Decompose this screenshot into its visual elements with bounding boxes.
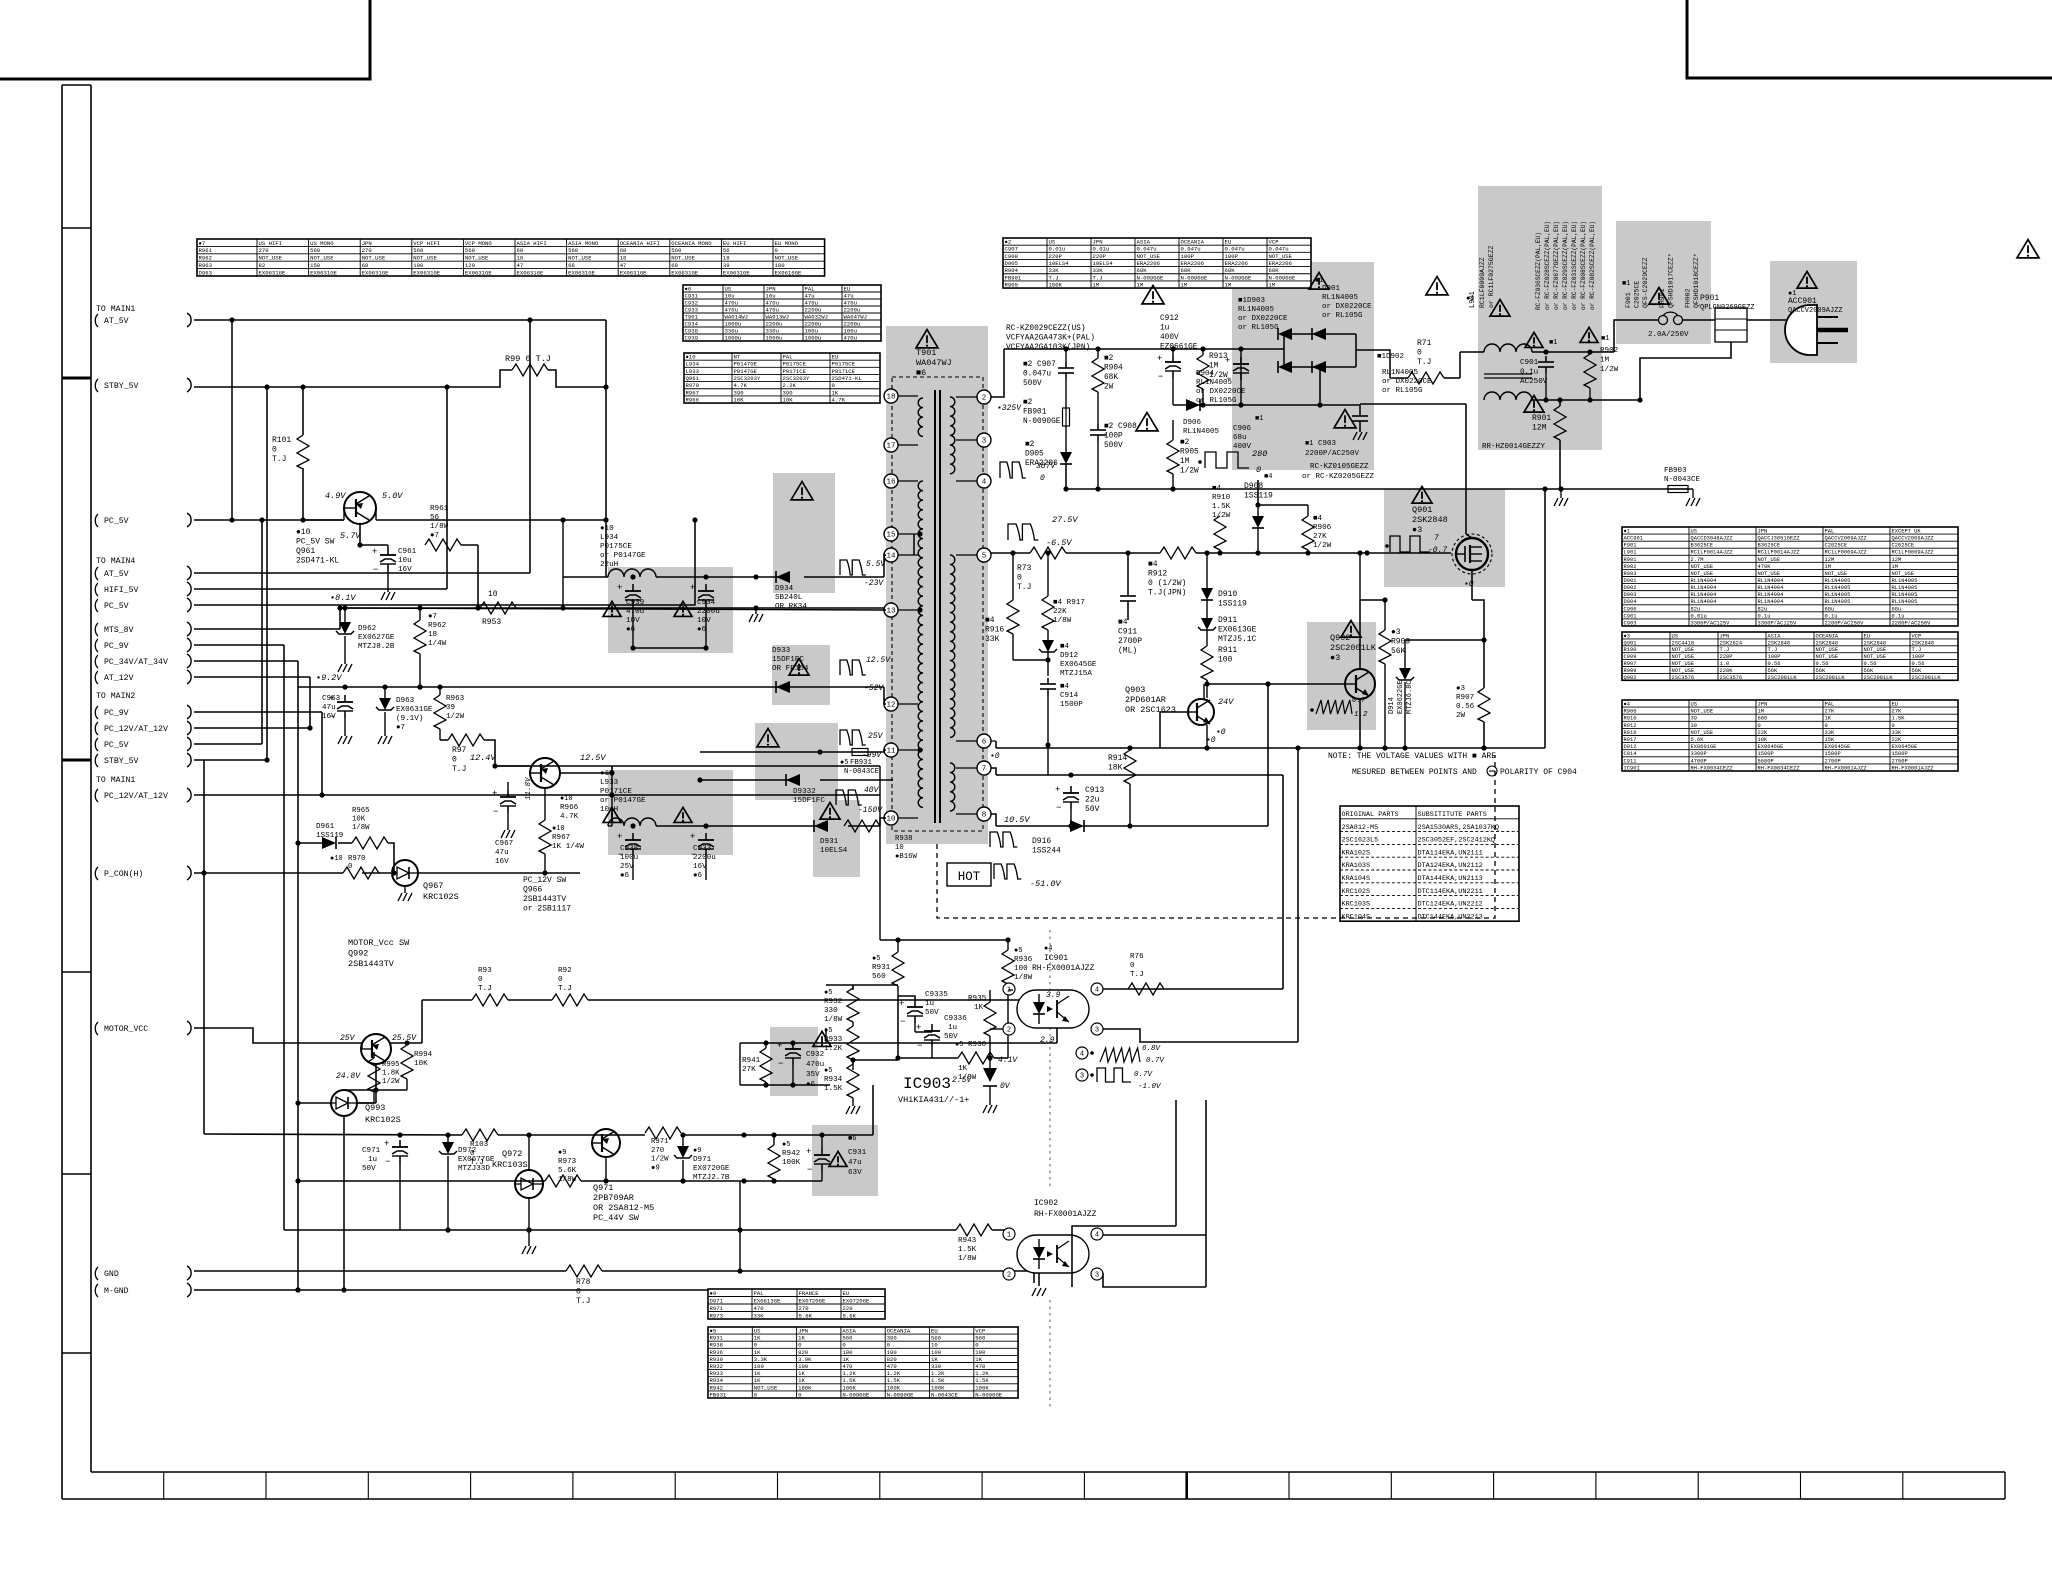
diode D906 (1183, 399, 1220, 436)
svg-text:1M: 1M (1758, 709, 1764, 715)
svg-text:C961: C961 (398, 548, 417, 556)
diode D904 (1278, 361, 1292, 373)
svg-text:■4: ■4 (1212, 485, 1222, 493)
svg-text:C931: C931 (848, 1149, 867, 1157)
svg-text:3300P/AC125V: 3300P/AC125V (1758, 620, 1798, 626)
svg-text:25.5V: 25.5V (392, 1034, 417, 1043)
wire M-GND rail (194, 1287, 740, 1292)
svg-text:RC1LF0014AJZZ: RC1LF0014AJZZ (1691, 550, 1734, 556)
svg-text:2200P/AC250V: 2200P/AC250V (1305, 450, 1360, 458)
svg-text:−: − (900, 1017, 905, 1027)
svg-text:R932: R932 (824, 998, 843, 1006)
svg-text:NOT_USE: NOT_USE (1816, 654, 1839, 660)
svg-text:2.5V: 2.5V (952, 1076, 972, 1085)
svg-text:27.5V: 27.5V (1052, 515, 1078, 525)
svg-text:3: 3 (982, 438, 987, 446)
svg-text:1u: 1u (925, 1000, 934, 1008)
svg-text:0: 0 (1256, 465, 1261, 475)
svg-text:VHiKIA431//-1+: VHiKIA431//-1+ (898, 1095, 969, 1105)
capacitor C903 (1302, 405, 1375, 481)
svg-text:EX0631GE: EX0631GE (517, 269, 544, 276)
label IC903 (898, 1075, 969, 1105)
svg-text:560: 560 (413, 247, 424, 254)
svg-text:RL1N4004: RL1N4004 (1691, 578, 1717, 584)
svg-text:4.9V: 4.9V (325, 491, 346, 501)
wire IC901 pins (990, 748, 1298, 1042)
svg-text:●4: ●4 (1044, 945, 1052, 953)
svg-text:US: US (1691, 529, 1697, 535)
svg-text:JPN: JPN (1758, 702, 1768, 708)
svg-text:470: 470 (842, 1363, 853, 1370)
svg-text:FB901: FB901 (1023, 409, 1047, 417)
capacitor C911 (1118, 553, 1142, 656)
svg-text:18: 18 (620, 255, 627, 262)
ground R934 (846, 1106, 860, 1114)
svg-text:+: + (690, 583, 695, 593)
svg-text:PC_12V/AT_12V: PC_12V/AT_12V (104, 724, 168, 734)
wire L934 line (563, 555, 886, 580)
svg-text:R966: R966 (686, 396, 699, 403)
resistor R932 (824, 985, 859, 1024)
svg-text:●5: ●5 (710, 1328, 717, 1335)
svg-text:NOT_USE: NOT_USE (1758, 557, 1781, 563)
transistor Q902 (1345, 669, 1375, 699)
svg-text:RH-FX0034CEZZ: RH-FX0034CEZZ (1691, 765, 1734, 771)
svg-text:KRC102S: KRC102S (365, 1115, 401, 1125)
transformer T901 core (892, 377, 983, 831)
svg-text:33K: 33K (985, 635, 1000, 644)
warning triangle F901 (1649, 288, 1669, 305)
svg-text:R916: R916 (1624, 730, 1637, 736)
svg-text:STBY_5V: STBY_5V (104, 382, 138, 391)
svg-text:1K: 1K (931, 1356, 938, 1363)
node label TO MAIN4 (96, 557, 135, 566)
svg-text:1u: 1u (368, 1156, 377, 1164)
waveform Q902 (1310, 697, 1368, 719)
connector MTS_8V (95, 622, 191, 636)
svg-text:MTS_8V: MTS_8V (104, 626, 134, 635)
ground D962 (338, 664, 352, 672)
connector P_CON(H) (95, 866, 191, 880)
svg-text:2SC3576: 2SC3576 (1720, 675, 1743, 681)
capacitor C971 (362, 1139, 408, 1230)
svg-text:(9.1V): (9.1V) (396, 715, 423, 723)
svg-text:C2025CE: C2025CE (1892, 543, 1915, 549)
svg-text:EX0613GE: EX0613GE (1218, 626, 1257, 635)
svg-text:KRC103S: KRC103S (1342, 901, 1371, 909)
svg-text:▪9.2V: ▪9.2V (316, 673, 342, 683)
svg-text:56K: 56K (1912, 668, 1922, 674)
svg-text:N-0090GE: N-0090GE (887, 1391, 914, 1398)
svg-text:JPN: JPN (1093, 239, 1103, 246)
svg-text:3.9K: 3.9K (798, 1356, 812, 1363)
svg-text:47: 47 (620, 262, 627, 269)
resistor R909 (1379, 597, 1410, 748)
resistor R943 (956, 1224, 992, 1263)
svg-text:JPN: JPN (1758, 529, 1768, 535)
svg-text:0 (1/2W): 0 (1/2W) (1148, 579, 1186, 588)
svg-text:2SC1623L5: 2SC1623L5 (1342, 837, 1379, 845)
svg-text:R953: R953 (482, 618, 501, 627)
svg-text:■4: ■4 (1313, 515, 1323, 523)
svg-text:0.047u: 0.047u (1225, 246, 1245, 253)
svg-text:1K: 1K (754, 1370, 761, 1377)
svg-text:VCP: VCP (1269, 239, 1280, 246)
svg-text:EX0631GE: EX0631GE (723, 269, 750, 276)
highlight box: rectifier D901-D904 area (1232, 262, 1374, 470)
svg-text:680: 680 (1758, 716, 1768, 722)
svg-text:2.7M: 2.7M (1691, 557, 1704, 563)
wire AC return (1532, 320, 1731, 403)
svg-text:●4: ●4 (1624, 702, 1630, 708)
svg-text:18: 18 (723, 255, 730, 262)
svg-text:L934: L934 (600, 534, 619, 542)
svg-text:4: 4 (1095, 986, 1099, 994)
resistor R910 (1212, 485, 1231, 553)
svg-text:4700P: 4700P (1691, 758, 1707, 764)
svg-text:1.5K: 1.5K (824, 1085, 843, 1093)
label T901 (916, 348, 952, 378)
svg-text:Q992: Q992 (348, 949, 368, 959)
svg-text:220P: 220P (1049, 253, 1063, 260)
warning triangle ACC901 (1797, 272, 1817, 289)
svg-text:D963: D963 (396, 697, 415, 705)
svg-text:Q901: Q901 (1412, 505, 1432, 515)
svg-text:RL1N4005: RL1N4005 (1825, 592, 1851, 598)
svg-text:EX0631GE: EX0631GE (396, 706, 433, 714)
svg-text:US: US (1691, 702, 1697, 708)
svg-text:10u: 10u (398, 557, 412, 565)
resistor R902 (1584, 335, 1619, 400)
capacitor C907 (1023, 361, 1074, 388)
capacitor C938 (617, 823, 641, 880)
svg-text:68u: 68u (1825, 606, 1835, 612)
svg-text:33K: 33K (1049, 267, 1060, 274)
svg-text:EX0631GE: EX0631GE (620, 269, 647, 276)
wire P_CON(H) (194, 760, 343, 1134)
svg-text:R942: R942 (710, 1384, 723, 1391)
wire IC903 sense (826, 1028, 853, 1070)
svg-text:R935: R935 (968, 995, 987, 1003)
svg-text:R904: R904 (1005, 267, 1019, 274)
svg-text:2SC3203Y: 2SC3203Y (783, 375, 810, 382)
svg-text:▪0: ▪0 (1216, 728, 1226, 737)
svg-text:MOTOR_Vcc SW: MOTOR_Vcc SW (348, 938, 410, 948)
svg-text:C906: C906 (1624, 606, 1637, 612)
svg-text:−: − (1158, 372, 1163, 382)
svg-text:D905: D905 (1025, 451, 1044, 459)
svg-text:2: 2 (1007, 1026, 1011, 1034)
svg-text:MTZJ6.8C: MTZJ6.8C (1406, 680, 1414, 714)
svg-text:VCP MONO: VCP MONO (465, 240, 492, 247)
svg-text:3: 3 (1080, 1072, 1084, 1080)
svg-text:WA014WJ: WA014WJ (725, 313, 749, 320)
svg-text:0.56: 0.56 (1456, 703, 1475, 711)
svg-text:EX0631GE: EX0631GE (671, 269, 698, 276)
svg-text:NOT_USE: NOT_USE (1864, 647, 1887, 653)
capacitor C961 (360, 545, 417, 592)
svg-text:1: 1 (1007, 1231, 1011, 1239)
svg-text:R933: R933 (824, 1036, 843, 1044)
svg-text:2700P: 2700P (1892, 758, 1908, 764)
highlight box: fuse F901 variants (1616, 221, 1711, 344)
svg-text:2: 2 (982, 395, 987, 403)
svg-text:1K: 1K (754, 1335, 761, 1342)
svg-text:−: − (373, 565, 378, 575)
svg-text:R92: R92 (558, 967, 572, 975)
svg-text:C911: C911 (1624, 758, 1637, 764)
svg-text:470K: 470K (1758, 564, 1772, 570)
svg-text:●6: ●6 (626, 626, 636, 634)
svg-text:■2: ■2 (1104, 355, 1114, 363)
svg-text:RC1LF0009AJZZ: RC1LF0009AJZZ (1479, 257, 1486, 308)
svg-text:R942: R942 (782, 1150, 801, 1158)
svg-text:▪8.1V: ▪8.1V (330, 593, 356, 603)
svg-text:C912: C912 (1160, 315, 1179, 323)
svg-text:C938: C938 (620, 845, 639, 853)
svg-text:R971: R971 (710, 1305, 724, 1312)
resistor R967 (539, 788, 584, 876)
svg-text:56K: 56K (1768, 668, 1778, 674)
svg-text:47u: 47u (322, 704, 336, 712)
svg-text:D933: D933 (772, 647, 791, 655)
svg-text:39: 39 (1691, 716, 1697, 722)
svg-text:27K: 27K (742, 1066, 756, 1074)
svg-text:T.J: T.J (1049, 274, 1059, 281)
resistor R901 (1532, 397, 1566, 489)
svg-text:EX0645GE: EX0645GE (1892, 744, 1918, 750)
wire PC_5V rail (194, 517, 698, 522)
svg-text:■1: ■1 (1549, 339, 1557, 347)
transistor Q967 (392, 860, 418, 886)
label IC901 (1032, 945, 1095, 1045)
resistor R965 (352, 807, 397, 876)
svg-text:P0175CE: P0175CE (832, 361, 856, 368)
svg-text:RL1N4004: RL1N4004 (1691, 585, 1717, 591)
svg-text:C903: C903 (1624, 620, 1637, 626)
table: substitute parts (1340, 806, 1519, 921)
svg-text:2SA812-M5: 2SA812-M5 (1342, 824, 1379, 832)
svg-text:0: 0 (576, 1288, 581, 1297)
svg-text:1000u: 1000u (725, 334, 742, 341)
svg-text:NOT_USE: NOT_USE (1672, 647, 1695, 653)
svg-text:1/2W: 1/2W (1313, 542, 1332, 550)
svg-text:■6: ■6 (848, 1135, 856, 1143)
svg-text:16V: 16V (495, 858, 509, 866)
svg-text:−: − (1056, 803, 1061, 813)
resistor R966 (560, 795, 579, 821)
wire PC5 to R953 (562, 520, 564, 608)
svg-text:-99V: -99V (862, 751, 882, 760)
svg-text:IC901: IC901 (1624, 765, 1640, 771)
svg-text:D902: D902 (1624, 585, 1637, 591)
svg-text:D931: D931 (820, 838, 839, 846)
waveform 5.5V (840, 560, 886, 588)
svg-text:P0171CE: P0171CE (832, 368, 856, 375)
svg-text:VCP: VCP (1912, 633, 1922, 639)
svg-text:KRC104S: KRC104S (1342, 913, 1371, 921)
svg-text:0: 0 (452, 756, 457, 765)
transformer T901 secondary pins (956, 390, 991, 821)
svg-text:●5: ●5 (955, 1041, 963, 1049)
zener D963 (376, 687, 433, 736)
svg-text:15: 15 (886, 532, 896, 540)
svg-text:R909: R909 (1391, 638, 1410, 647)
svg-text:+: + (617, 583, 622, 593)
svg-text:2SK2848: 2SK2848 (1864, 640, 1887, 646)
svg-text:D916: D916 (1032, 837, 1051, 846)
svg-text:15DF1FC: 15DF1FC (793, 797, 825, 805)
table: variant list #1 (ACC901..C903) (1622, 527, 1958, 626)
svg-text:0: 0 (272, 446, 277, 455)
svg-text:AC250V: AC250V (1520, 378, 1548, 386)
svg-text:●5: ●5 (782, 1141, 790, 1149)
svg-text:100K: 100K (931, 1384, 945, 1391)
svg-text:ASIA: ASIA (842, 1328, 856, 1335)
svg-text:■2 C908: ■2 C908 (1104, 423, 1137, 431)
svg-text:25V: 25V (868, 732, 884, 741)
svg-text:0.047u: 0.047u (1137, 246, 1157, 253)
svg-text:D962: D962 (358, 625, 377, 633)
svg-text:10u: 10u (725, 292, 735, 299)
svg-text:IC903: IC903 (903, 1075, 951, 1093)
svg-text:82: 82 (259, 262, 266, 269)
ground C961 (381, 592, 395, 600)
waveform 27.5V (1008, 515, 1078, 548)
svg-text:NOT_USE: NOT_USE (310, 255, 334, 262)
svg-text:33K: 33K (1825, 730, 1835, 736)
svg-text:WA047WJ: WA047WJ (844, 313, 868, 320)
svg-text:EX0631GE: EX0631GE (259, 269, 286, 276)
wire Q901 source to R907 (1405, 637, 1487, 642)
svg-text:EZ0661GE: EZ0661GE (1160, 344, 1198, 352)
svg-text:VCFYAA2GA473K+(PAL): VCFYAA2GA473K+(PAL) (1006, 335, 1095, 343)
svg-text:N-0043CE: N-0043CE (844, 768, 879, 776)
svg-text:NOT_USE: NOT_USE (465, 255, 489, 262)
svg-text:1K: 1K (974, 1004, 984, 1012)
svg-text:EXCEPT UK: EXCEPT UK (1892, 529, 1922, 535)
diode D931 (814, 820, 848, 855)
wire bottom bus (284, 1181, 1013, 1233)
svg-text:RL1N4005: RL1N4005 (1825, 585, 1851, 591)
resistor R916 (985, 550, 1019, 660)
transistor Q961 (325, 491, 403, 541)
svg-text:NOTE: THE VOLTAGE VALUES WITH: NOTE: THE VOLTAGE VALUES WITH ■ ARE (1328, 752, 1496, 761)
svg-text:2SC2001LK: 2SC2001LK (1816, 675, 1846, 681)
wire Q966 12V row (495, 765, 880, 767)
svg-text:ASIA: ASIA (1137, 239, 1151, 246)
svg-text:100: 100 (1014, 965, 1028, 973)
highlight box: Q902 (1307, 622, 1376, 730)
svg-text:3: 3 (1095, 1026, 1099, 1034)
wire pin6 rail (990, 489, 1545, 761)
svg-text:RL1N4005: RL1N4005 (1892, 578, 1918, 584)
svg-text:1.5K: 1.5K (931, 1377, 945, 1384)
svg-text:5: 5 (982, 553, 987, 561)
svg-text:▪0: ▪0 (990, 752, 1000, 761)
resistor R973 (545, 1149, 581, 1187)
svg-text:DTC114EKA,UN2211: DTC114EKA,UN2211 (1418, 888, 1483, 896)
svg-text:560: 560 (310, 247, 321, 254)
warning triangle D933 (789, 659, 809, 676)
svg-text:82u: 82u (1758, 606, 1768, 612)
svg-text:NOT_USE: NOT_USE (1672, 654, 1695, 660)
svg-text:EU: EU (844, 285, 851, 292)
resistor R994 (373, 1043, 432, 1093)
svg-text:ERA2206: ERA2206 (1137, 260, 1161, 267)
svg-text:R970: R970 (686, 382, 700, 389)
svg-text:NOT_USE: NOT_USE (1825, 571, 1848, 577)
warning triangle T901 (916, 330, 938, 348)
hot/cold dashed boundary (937, 755, 1495, 918)
ground C903 (1353, 432, 1367, 440)
frame: left revision strip (62, 85, 91, 1499)
warning triangle D931 (820, 803, 840, 820)
node label TO MAIN2 (96, 692, 135, 701)
svg-text:12.5V: 12.5V (866, 656, 891, 665)
svg-text:470u: 470u (766, 306, 779, 313)
svg-text:US MONO: US MONO (310, 240, 334, 247)
svg-text:0: 0 (558, 976, 563, 984)
svg-text:68K: 68K (1269, 267, 1280, 274)
label RR-HZ0014GEZZY (1482, 443, 1546, 451)
label HOT (947, 863, 991, 886)
svg-text:R916: R916 (985, 626, 1004, 635)
highlight box: Q901 (1384, 489, 1505, 587)
svg-text:22K: 22K (1892, 737, 1902, 743)
svg-text:●5: ●5 (1014, 947, 1022, 955)
svg-text:D910: D910 (1218, 590, 1237, 599)
svg-text:12M: 12M (1892, 557, 1902, 563)
svg-text:NOT_USE: NOT_USE (1816, 647, 1839, 653)
svg-text:5.7V: 5.7V (340, 531, 361, 541)
svg-text:C939: C939 (626, 599, 645, 607)
wire D9332 row (697, 777, 893, 782)
svg-text:D963: D963 (199, 269, 212, 276)
svg-text:■2: ■2 (1180, 439, 1190, 447)
svg-text:NOT_USE: NOT_USE (1672, 661, 1695, 667)
svg-text:0: 0 (478, 976, 483, 984)
svg-text:10: 10 (895, 844, 904, 852)
svg-text:P0171CE: P0171CE (600, 788, 632, 796)
svg-text:3300P: 3300P (1691, 751, 1707, 757)
svg-text:100P: 100P (1104, 433, 1123, 441)
warning triangle C901 (1525, 332, 1543, 347)
resistor R103 (462, 1129, 498, 1167)
svg-text:T.J: T.J (1768, 647, 1778, 653)
svg-text:R904: R904 (1104, 365, 1123, 373)
svg-text:1M: 1M (1093, 281, 1100, 288)
warning triangle C938 (603, 807, 621, 822)
waveform Q901 gate (1385, 534, 1447, 555)
capacitor C934 (690, 583, 720, 648)
svg-text:T.J: T.J (1912, 647, 1922, 653)
svg-text:2PD601AR: 2PD601AR (1125, 695, 1166, 705)
svg-text:2200u: 2200u (805, 306, 822, 313)
wire Q902 emitter (1359, 699, 1361, 748)
svg-text:22K: 22K (1053, 608, 1067, 616)
svg-text:R71: R71 (1417, 339, 1432, 348)
svg-text:100K: 100K (782, 1159, 801, 1167)
svg-text:33K: 33K (1093, 267, 1104, 274)
label IC902 (1034, 1199, 1097, 1219)
svg-text:■1D903: ■1D903 (1238, 297, 1266, 305)
svg-text:10V: 10V (697, 617, 711, 625)
svg-text:R910: R910 (1212, 494, 1231, 502)
svg-text:RC1LF0009AJZZ: RC1LF0009AJZZ (1825, 550, 1868, 556)
svg-text:0.56: 0.56 (1816, 661, 1829, 667)
svg-text:R913: R913 (1209, 353, 1228, 361)
